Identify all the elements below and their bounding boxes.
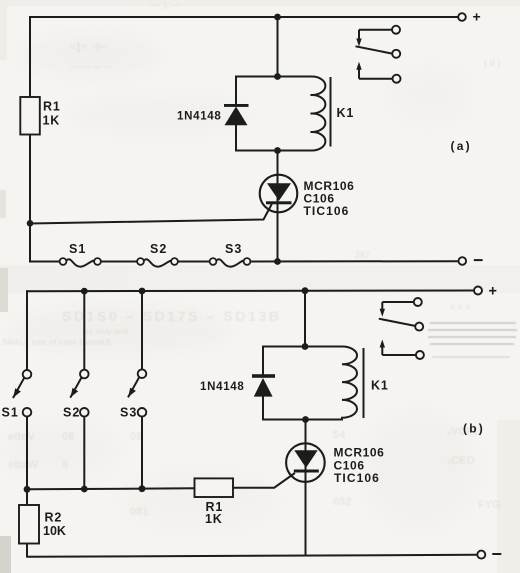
resistor R2 (b) <box>19 489 39 558</box>
wire center vertical (b) <box>304 291 306 347</box>
svg-text:S3: S3 <box>225 242 242 256</box>
wire combo bottom (a) <box>236 150 312 152</box>
SCR cathode bar (b) <box>294 470 319 473</box>
diode 1N4148 (b) <box>252 346 275 421</box>
svg-text:six only and: six only and <box>82 327 128 336</box>
svg-text:TIC106: TIC106 <box>334 471 380 485</box>
terminal - (b) <box>477 551 485 559</box>
relay contacts K1 (b) <box>379 298 424 359</box>
node bottom of coil-diode pair (a) <box>274 147 281 154</box>
wire S1 column upper (b) <box>26 290 28 370</box>
svg-text:S1: S1 <box>69 242 86 256</box>
resistor R1 (b) <box>195 478 234 497</box>
wire gate bus horizontal (b) <box>27 488 195 489</box>
SCR body circle U1 (a) <box>260 175 298 213</box>
node S3 top (b) <box>139 288 146 295</box>
svg-text:+: + <box>473 9 481 25</box>
SCR triangle (a) <box>267 183 291 200</box>
svg-text:S2: S2 <box>63 406 80 420</box>
svg-text:S2: S2 <box>150 242 167 256</box>
wire top rail (b) <box>27 290 474 293</box>
svg-text:1K: 1K <box>205 512 223 526</box>
switch S1 (a) <box>60 258 101 267</box>
resistor R1 (a) <box>20 97 40 135</box>
svg-text:FYG: FYG <box>478 499 501 511</box>
svg-text:287: 287 <box>355 250 370 260</box>
svg-text:( d ): ( d ) <box>484 58 501 68</box>
wire combo bottom (b) <box>263 419 343 421</box>
svg-text:1N4148: 1N4148 <box>177 110 221 122</box>
SCR cathode bar (a) <box>266 201 292 204</box>
wire bottom rail (b) <box>27 555 478 557</box>
svg-text:ₓCEO: ₓCEO <box>446 455 475 467</box>
wire bottom rail seg3 (a) <box>178 261 210 263</box>
relay core bar (a) <box>330 77 332 147</box>
label - (a) <box>474 259 483 261</box>
svg-text:(b): (b) <box>463 422 485 436</box>
svg-text:09: 09 <box>130 431 142 443</box>
node bottom rail junction (a) <box>274 258 281 265</box>
svg-text:— ⊥ —: — ⊥ — <box>150 0 181 10</box>
svg-text:10K: 10K <box>43 524 66 538</box>
wire gate (a) <box>30 204 272 224</box>
wire S2 column upper (b) <box>83 291 85 370</box>
wire gate diagonal (b) <box>233 473 295 488</box>
svg-text:≡ ≡ ≡: ≡ ≡ ≡ <box>450 302 471 312</box>
svg-text:8: 8 <box>62 459 68 471</box>
terminal - (a) <box>459 257 467 265</box>
SCR body circle U1 (b) <box>286 443 325 482</box>
wire S3 column lower (b) <box>141 417 143 489</box>
ghost lines right of contacts (b) <box>428 323 517 357</box>
wire combo top (a) <box>236 76 312 78</box>
wire bottom rail seg2 (a) <box>101 261 137 263</box>
node gate junction left rail (a) <box>27 220 34 227</box>
wire bottom rail seg1 (a) <box>30 261 60 263</box>
node top of coil-diode pair (b) <box>302 343 309 350</box>
svg-text:081: 081 <box>130 506 148 518</box>
relay contacts K1 (a) <box>356 26 401 83</box>
wire combo top (b) <box>263 346 343 348</box>
svg-text:etloV: etloV <box>8 431 36 443</box>
wire left rail lower (a) <box>29 135 31 263</box>
svg-text:R1: R1 <box>43 100 61 114</box>
svg-text:ettaW: ettaW <box>8 459 39 471</box>
svg-text:K1: K1 <box>337 106 355 120</box>
switch S3 (a) <box>210 258 251 267</box>
svg-text:S3: S3 <box>120 406 137 420</box>
svg-text:1K: 1K <box>43 114 61 128</box>
wire S1 column lower (b) <box>26 417 28 490</box>
svg-text:SMALL saw of case 1 mmKB: SMALL saw of case 1 mmKB <box>2 338 111 347</box>
svg-text:K1: K1 <box>371 378 389 392</box>
relay coil K1 (b) <box>342 347 357 420</box>
svg-text:TIC106: TIC106 <box>304 204 350 218</box>
diode 1N4148 (a) <box>224 76 249 152</box>
svg-text:08: 08 <box>62 431 74 443</box>
node junction top rail (a) <box>274 14 281 21</box>
terminal + (a) <box>458 13 466 21</box>
node bottom of coil-diode pair (b) <box>302 416 309 423</box>
node S3 bottom (b) <box>139 485 146 492</box>
svg-text:S1: S1 <box>2 406 19 420</box>
switch S3 (b) <box>128 369 146 416</box>
switch S2 (a) <box>137 258 178 267</box>
node S2 bottom (b) <box>81 486 88 493</box>
svg-text:54: 54 <box>333 429 346 441</box>
svg-text:052: 052 <box>333 496 351 508</box>
SCR triangle (b) <box>294 450 317 468</box>
svg-text:≡∥≡ ⊣⊢: ≡∥≡ ⊣⊢ <box>70 42 107 53</box>
relay core bar (b) <box>363 348 365 418</box>
SCR anode-cathode vertical (a) <box>277 151 279 263</box>
wire top rail (a) <box>30 16 458 18</box>
node S1 bottom (b) <box>24 486 31 493</box>
svg-text:1N4148: 1N4148 <box>200 381 244 393</box>
switch S1 (b) <box>13 370 31 417</box>
wire left rail upper (a) <box>29 16 31 98</box>
svg-text:MCR106: MCR106 <box>334 446 385 460</box>
terminal + (b) <box>474 287 482 295</box>
wire center vertical (a) <box>277 17 279 77</box>
node top of coil-diode pair (a) <box>274 73 281 80</box>
relay coil K1 (a) <box>311 76 326 150</box>
switch S2 (b) <box>70 370 88 417</box>
SCR anode-cathode vertical (b) <box>305 420 307 556</box>
wire S3 column upper (b) <box>141 291 143 369</box>
svg-text:R2: R2 <box>45 511 63 525</box>
label - (b) <box>492 553 501 555</box>
svg-text:+: + <box>489 283 497 299</box>
wire S2 column lower (b) <box>83 417 85 489</box>
node top rail junction (b) <box>302 287 309 294</box>
svg-text:SD1S0 – SD17S – SD13B: SD1S0 – SD17S – SD13B <box>62 308 282 324</box>
svg-text:— — — —: — — — — <box>70 62 114 72</box>
wire bottom rail seg4 (a) <box>251 260 459 262</box>
svg-text:(a): (a) <box>451 139 472 153</box>
node S2 top (b) <box>81 288 88 295</box>
